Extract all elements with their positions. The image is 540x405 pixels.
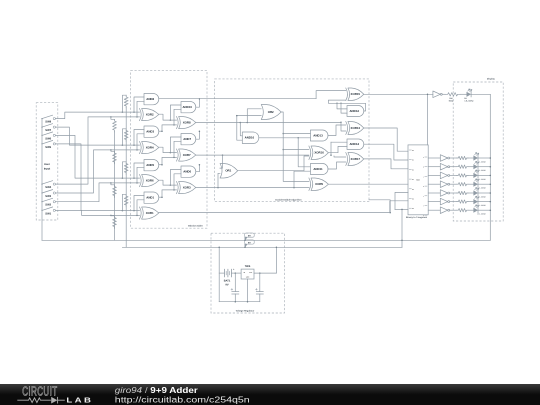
svg-text:SW6: SW6 — [45, 137, 51, 140]
junction — [199, 98, 201, 100]
wire resistor tap — [122, 95, 126, 112]
junction — [122, 210, 124, 212]
wire carry msb — [159, 98, 200, 100]
inverter INV5 — [440, 190, 447, 197]
svg-text:D3: D3 — [412, 179, 414, 181]
switch SW8 — [41, 118, 42, 119]
wire A3 from SW7 — [55, 127, 139, 145]
junction — [122, 177, 124, 179]
svg-text:AND12: AND12 — [349, 109, 359, 113]
XOR gate XOR15 — [346, 88, 348, 101]
junction — [490, 209, 492, 211]
wire tap to AND14 in2 — [330, 142, 332, 155]
svg-text:e: e — [423, 196, 424, 198]
junction — [282, 133, 284, 135]
svg-text:OUT: OUT — [249, 271, 252, 274]
wire aux to decoder — [369, 200, 390, 213]
wire LSB to decoder — [390, 201, 408, 213]
wire AND12 out hook to XOR15 in2 — [328, 100, 365, 111]
junction — [340, 103, 342, 105]
svg-text:Bitwise Adder: Bitwise Adder — [188, 224, 203, 227]
wire resistor tap — [122, 162, 126, 178]
junction — [133, 210, 135, 212]
wire XOR9 out to decoder — [328, 183, 408, 185]
OR gate OR2 — [261, 105, 281, 120]
svg-text:D4: D4 — [412, 189, 414, 191]
wire inverter to resistor — [450, 192, 457, 194]
resistor R36 — [457, 200, 468, 203]
resistor R4 — [124, 194, 128, 207]
svg-text:http://circuitlab.com/c254q5n: http://circuitlab.com/c254q5n — [115, 395, 250, 405]
junction — [235, 301, 237, 303]
wire carry branch — [174, 174, 181, 190]
svg-text:AND5: AND5 — [146, 163, 154, 167]
XOR gate XOR7 — [177, 149, 179, 161]
svg-text:AND11: AND11 — [313, 167, 323, 171]
wire LED to cathode rail — [471, 93, 490, 95]
junction — [173, 157, 175, 159]
wire carry from AND — [159, 164, 162, 166]
wire resistor column to rail — [125, 108, 127, 248]
svg-text:CIRCUIT: CIRCUIT — [22, 385, 57, 399]
svg-text:D1: D1 — [412, 160, 414, 162]
XOR gate XOR9 — [309, 178, 311, 191]
wire carry in — [162, 190, 177, 197]
wire 7805 ground — [247, 279, 249, 302]
svg-text:Binary to 7-segment: Binary to 7-segment — [406, 216, 427, 219]
wire carry merge — [196, 131, 200, 139]
svg-text:b: b — [423, 167, 424, 169]
wire ground rail — [42, 239, 490, 241]
resistor R1 — [124, 95, 128, 108]
svg-text:D2: D2 — [412, 169, 414, 171]
wire sum bus 1 — [196, 187, 309, 189]
AND gate AND12 — [347, 106, 364, 117]
XOR gate XOR8 — [177, 117, 179, 129]
wire resistor to LED — [468, 201, 473, 203]
svg-text:AND8: AND8 — [146, 97, 154, 101]
wire inverter to resistor — [450, 166, 457, 168]
junction — [122, 111, 124, 113]
junction — [389, 212, 391, 214]
wire LED to cathode rail — [478, 209, 490, 211]
wire carry from AND — [159, 130, 162, 132]
resistor R7 — [113, 185, 117, 198]
logo resistor symbol — [17, 398, 51, 403]
junction — [297, 137, 299, 139]
junction — [170, 184, 172, 186]
junction — [490, 166, 492, 168]
junction — [110, 182, 112, 184]
junction — [173, 189, 175, 191]
svg-text:XOR2: XOR2 — [146, 113, 154, 117]
junction — [247, 122, 249, 124]
junction — [136, 149, 138, 151]
wire resistor tap — [111, 183, 115, 185]
inverter INV8 — [433, 91, 440, 98]
junction — [133, 144, 135, 146]
switch SW1 — [41, 210, 42, 211]
wire LED to cathode rail — [478, 166, 490, 168]
svg-text:SW3: SW3 — [45, 195, 51, 198]
junction — [235, 272, 237, 274]
svg-text:AND3: AND3 — [146, 130, 154, 134]
LED D8 — [473, 199, 478, 204]
wire sum bus 0 (LSB) — [159, 212, 390, 214]
wire inverter to resistor — [450, 209, 457, 211]
wire decoder pin stub — [395, 208, 408, 210]
resistor R31 — [457, 156, 468, 159]
svg-text:User: User — [44, 163, 50, 166]
junction — [136, 215, 138, 217]
svg-text:AND7: AND7 — [183, 137, 191, 141]
wire tap to OR1 in1 — [220, 155, 223, 168]
wire carry merge — [196, 165, 200, 172]
svg-text:c: c — [423, 176, 424, 178]
AND gate AND13 — [310, 130, 328, 141]
wire tap to AND12 in2 — [341, 103, 347, 113]
wire LED to cathode rail — [478, 201, 490, 203]
wire decoder pin to inverter 0 — [428, 157, 440, 159]
XOR gate XOR1 — [140, 207, 142, 219]
svg-text:XOR9: XOR9 — [315, 182, 323, 186]
junction — [110, 149, 112, 151]
wire resistor column to ground rail — [114, 132, 116, 240]
svg-text:SW7: SW7 — [45, 129, 51, 132]
logo diode symbol — [51, 397, 57, 404]
wire branch to AND11 in1 — [298, 138, 310, 167]
wire carry from AND — [159, 196, 162, 198]
resistor R37 — [457, 209, 468, 212]
wire AND14 in2 stub — [331, 141, 347, 143]
wire XOR16 out to AND14 in1 — [328, 146, 347, 152]
wire resistor tap — [111, 117, 115, 119]
svg-text:SW2: SW2 — [45, 204, 51, 207]
wire tap to AND11 in2 — [294, 171, 310, 187]
svg-text:SW4: SW4 — [45, 186, 51, 189]
svg-text:XOR3: XOR3 — [183, 186, 191, 190]
wire decoder pin link — [395, 192, 408, 209]
wire inverter to resistor — [450, 201, 457, 203]
XOR gate XOR16 — [309, 146, 311, 160]
junction — [136, 182, 138, 184]
junction — [122, 144, 124, 146]
wire OR1 out to XOR16 in2 — [238, 156, 309, 171]
XOR gate XOR13 — [346, 122, 348, 135]
wire decoder pin to inverter 6 — [428, 209, 440, 211]
svg-text:OR1: OR1 — [225, 169, 231, 173]
junction — [240, 122, 242, 124]
svg-text:AND13: AND13 — [313, 133, 323, 137]
wire tap to AND12 in1 — [337, 103, 347, 109]
wire B3 from SW3 — [55, 150, 139, 193]
inverter INV2 — [440, 163, 447, 170]
junction — [490, 201, 492, 203]
wire OR2 in2 feed — [237, 115, 261, 117]
junction — [259, 272, 261, 274]
resistor R2 — [124, 129, 128, 142]
LED D7 — [473, 190, 478, 195]
junction — [199, 130, 201, 132]
junction — [161, 130, 163, 132]
wire LED to cathode rail — [478, 183, 490, 185]
wire A3 branch to AND — [134, 130, 144, 146]
inverter INV4 — [440, 181, 447, 188]
capacitor C1 — [234, 273, 236, 292]
svg-text:Display: Display — [487, 78, 496, 81]
junction — [244, 247, 246, 249]
wire decoder pin to inverter 4 — [428, 192, 440, 194]
wire A2 from SW6 — [55, 135, 139, 178]
resistor R32 — [457, 165, 468, 168]
wire decoder pin to inverter 2 — [428, 174, 440, 176]
svg-text:D6: D6 — [412, 208, 414, 210]
AND gate AND6 — [181, 166, 196, 177]
junction — [401, 209, 403, 211]
wire 5V rail — [122, 246, 402, 248]
AND gate AND3 — [144, 126, 159, 137]
AND gate AND8 — [144, 94, 159, 105]
wire B1 from SW1 — [55, 210, 139, 215]
junction — [330, 154, 332, 156]
XOR gate XOR6 — [140, 175, 142, 187]
svg-text:OR2: OR2 — [268, 110, 274, 114]
wire tap to AND16 in1 — [240, 123, 242, 136]
junction — [490, 183, 492, 185]
LED D5 — [473, 173, 478, 178]
wire tap to OR1 in2 — [218, 173, 220, 187]
wire decoder ground drop — [401, 209, 403, 247]
wire B4 branch to AND — [137, 101, 144, 117]
switch SW3 — [41, 192, 42, 193]
net flag 5V — [245, 244, 248, 247]
wire resistor tap — [111, 150, 115, 151]
wire carry branch — [174, 109, 181, 125]
resistor R33 — [457, 174, 468, 177]
junction — [133, 111, 135, 113]
switch SW7 — [41, 127, 42, 128]
wire display cathode rail — [489, 94, 491, 240]
wire resistor to LED — [468, 157, 473, 159]
XOR gate XOR3 — [177, 182, 179, 194]
wire sum to second half-adder — [159, 114, 177, 120]
wire sum branch — [170, 137, 181, 153]
section box: voltage regulator — [211, 233, 285, 313]
wire resistor to LED — [460, 93, 466, 95]
wire LED to cathode rail — [478, 174, 490, 176]
inverter INV1 — [440, 155, 447, 162]
wire resistor tap — [122, 194, 126, 210]
voltage regulator U2 7805 — [241, 269, 254, 279]
wire inverter to resistor — [450, 183, 457, 185]
net flag 0V — [245, 237, 248, 240]
wire tap to XOR15 in1 — [316, 91, 346, 99]
junction — [293, 187, 295, 189]
svg-text:XOR13: XOR13 — [351, 126, 361, 130]
resistor R8 — [113, 216, 117, 229]
junction — [282, 149, 284, 151]
junction — [161, 196, 163, 198]
wire resistor to LED — [468, 209, 473, 211]
junction — [427, 94, 429, 96]
wire sum to second half-adder — [159, 180, 177, 185]
junction — [340, 121, 342, 123]
resistor R35 — [457, 191, 468, 194]
svg-text:XOR15: XOR15 — [351, 92, 361, 96]
wire OR2 output chain — [281, 112, 309, 181]
svg-text:560Ω: 560Ω — [449, 100, 454, 103]
svg-text:d: d — [423, 186, 424, 188]
svg-text:D0: D0 — [412, 150, 414, 152]
wire chain to AND13 in1 — [283, 133, 310, 135]
LED D4 — [473, 164, 478, 169]
wire B2 from SW2 — [55, 183, 139, 202]
svg-text:XOR17: XOR17 — [351, 157, 361, 161]
AND gate AND11 — [310, 164, 328, 175]
wire battery negative drop — [218, 247, 220, 301]
wire resistor tap — [111, 214, 115, 216]
junction — [133, 177, 135, 179]
svg-text:9V: 9V — [225, 283, 228, 286]
wire inverter to resistor — [450, 174, 457, 176]
resistor R30 — [445, 93, 460, 96]
wire 5V riser — [275, 247, 277, 273]
wire B3 branch to AND — [137, 134, 144, 150]
wire AND16 in2 link — [237, 116, 243, 141]
inverter INV3 — [440, 172, 447, 179]
AND gate AND7 — [181, 134, 196, 145]
wire decoder pin to inverter 5 — [428, 201, 440, 203]
wire A1 from SW5 — [55, 144, 139, 211]
svg-text:XOR16: XOR16 — [314, 151, 324, 155]
wire AND11 out to XOR17 in2 — [328, 162, 346, 169]
XOR gate XOR4 — [140, 142, 142, 154]
wire A1 branch to AND — [134, 196, 144, 211]
junction — [110, 116, 112, 118]
junction — [217, 187, 219, 189]
svg-text:LTL-30762: LTL-30762 — [465, 100, 474, 103]
section box: display — [453, 82, 503, 221]
wire sum bus 2 — [196, 154, 309, 156]
wire tap to OR2 in1 — [247, 109, 261, 123]
wire 7805 out — [254, 272, 276, 274]
section box: bitwise adder — [131, 70, 207, 228]
svg-text:f: f — [423, 206, 424, 208]
XOR gate XOR2 — [140, 109, 142, 121]
wire sum branch — [170, 105, 181, 120]
junction — [236, 115, 238, 117]
wire XOR17 out to decoder — [364, 159, 408, 169]
svg-text:SW8: SW8 — [45, 121, 51, 124]
wire resistor to LED — [468, 174, 473, 176]
junction — [199, 164, 201, 166]
wire carry to display driver — [364, 93, 433, 95]
battery BAT1 — [219, 272, 224, 274]
switch SW6 — [41, 135, 42, 136]
LED D3 — [473, 155, 478, 160]
svg-text:XOR6: XOR6 — [146, 179, 154, 183]
wire sum bus 3 — [196, 122, 341, 124]
wire inverter to resistor — [442, 93, 445, 95]
junction — [170, 152, 172, 154]
wire resistor tap — [122, 129, 126, 145]
svg-text:BAT1: BAT1 — [224, 280, 231, 283]
junction — [490, 175, 492, 177]
svg-text:LAB: LAB — [66, 396, 93, 405]
resistor R34 — [457, 183, 468, 186]
wire A2 branch to AND — [134, 163, 144, 178]
svg-text:SW1: SW1 — [45, 212, 51, 215]
resistor R6 — [113, 151, 117, 164]
wire switch common to ground rail — [41, 119, 43, 241]
AND gate AND5 — [144, 160, 159, 171]
switch SW2 — [41, 201, 42, 202]
wire LED to cathode rail — [478, 192, 490, 194]
svg-text:SW5: SW5 — [45, 146, 51, 149]
svg-text:Input: Input — [44, 168, 50, 171]
svg-text:AND1: AND1 — [146, 196, 154, 200]
AND gate AND14 — [347, 139, 364, 150]
wire AND16 out to AND13 in2 — [259, 137, 311, 139]
wire carry into decoder — [427, 94, 429, 145]
wire carry in — [162, 125, 177, 131]
svg-text:XOR7: XOR7 — [183, 153, 191, 157]
OR gate OR1 — [220, 164, 238, 179]
svg-text:XOR8: XOR8 — [183, 121, 191, 125]
wire decoder pin to inverter 3 — [428, 183, 440, 185]
wire AND14 out to decoder — [364, 144, 408, 160]
wire XOR17 in1 stub — [334, 156, 346, 157]
svg-text:Double Dabble Algorithm: Double Dabble Algorithm — [275, 198, 301, 201]
switch SW5 — [41, 143, 42, 144]
switch SW4 — [41, 184, 42, 185]
wire A4 from SW8 — [55, 112, 139, 119]
IC U1 binary to 7-segment decoder — [408, 145, 428, 215]
junction — [161, 164, 163, 166]
wire carry branch — [174, 141, 181, 157]
junction — [247, 301, 249, 303]
inverter INV6 — [440, 198, 447, 205]
svg-text:7805: 7805 — [245, 265, 251, 268]
LED D9 — [473, 208, 478, 213]
junction — [276, 247, 278, 249]
wire carry in — [162, 157, 177, 164]
svg-text:Voltage Regulator: Voltage Regulator — [236, 309, 255, 312]
svg-text:AND16: AND16 — [245, 136, 255, 140]
svg-text:AND14: AND14 — [349, 142, 359, 146]
AND gate AND1 — [144, 192, 159, 203]
svg-text:LTL-30762: LTL-30762 — [477, 213, 485, 216]
wire chain to XOR16 in1 — [283, 149, 309, 151]
svg-text:a: a — [423, 157, 424, 159]
wire B2 branch to AND — [137, 167, 144, 183]
wire LED to cathode rail — [478, 157, 490, 159]
AND gate AND10 — [181, 102, 196, 113]
junction — [222, 154, 224, 156]
inverter INV7 — [440, 207, 447, 214]
svg-text:XOR1: XOR1 — [146, 211, 154, 215]
junction — [110, 215, 112, 217]
wire carry bus to double dabble — [199, 98, 316, 100]
svg-text:XOR4: XOR4 — [146, 146, 154, 150]
junction — [401, 240, 403, 242]
svg-text:D5: D5 — [412, 199, 414, 201]
junction — [244, 240, 246, 242]
wire XOR13 out to decoder — [364, 128, 408, 151]
capacitor C2 — [259, 273, 261, 292]
wire B4 from SW4 — [55, 117, 139, 184]
junction — [136, 116, 138, 118]
